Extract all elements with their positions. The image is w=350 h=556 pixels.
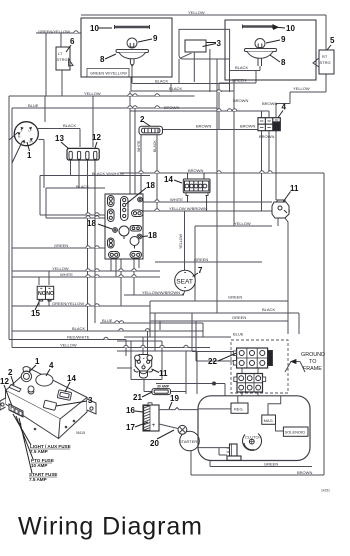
svg-text:BROWN: BROWN bbox=[164, 105, 179, 110]
svg-text:STARTER: STARTER bbox=[179, 439, 197, 444]
svg-text:BROWN: BROWN bbox=[188, 168, 203, 173]
svg-text:10: 10 bbox=[286, 24, 295, 33]
svg-text:RT: RT bbox=[322, 54, 328, 59]
svg-text:Wiring Diagram: Wiring Diagram bbox=[18, 513, 203, 541]
svg-text:GREEN/YELLOW: GREEN/YELLOW bbox=[38, 29, 70, 34]
svg-text:1: 1 bbox=[27, 151, 32, 160]
svg-text:7.5 AMP: 7.5 AMP bbox=[29, 477, 47, 482]
svg-text:GREEN: GREEN bbox=[194, 257, 208, 262]
svg-text:GREEN: GREEN bbox=[232, 315, 246, 320]
svg-text:18: 18 bbox=[146, 181, 155, 190]
svg-text:YELLOW W/BROWN: YELLOW W/BROWN bbox=[169, 206, 207, 211]
svg-text:GREEN: GREEN bbox=[54, 243, 68, 248]
svg-text:7.5 AMP: 7.5 AMP bbox=[30, 449, 48, 454]
svg-text:6: 6 bbox=[70, 37, 75, 46]
svg-text:3: 3 bbox=[217, 39, 222, 48]
svg-text:YELLOW: YELLOW bbox=[188, 10, 205, 15]
svg-text:BLACK: BLACK bbox=[72, 326, 85, 331]
svg-text:NO: NO bbox=[38, 291, 46, 297]
svg-text:REG.: REG. bbox=[234, 406, 244, 411]
svg-text:STRG: STRG bbox=[320, 60, 331, 65]
svg-text:9: 9 bbox=[153, 34, 158, 43]
svg-text:19: 19 bbox=[170, 394, 179, 403]
svg-text:3: 3 bbox=[88, 396, 93, 405]
svg-text:4: 4 bbox=[49, 361, 54, 370]
svg-text:L+: L+ bbox=[29, 129, 33, 133]
svg-text:S: S bbox=[21, 129, 23, 133]
svg-text:BROWN: BROWN bbox=[297, 470, 312, 475]
svg-text:YELLOW: YELLOW bbox=[293, 86, 310, 91]
svg-text:LT: LT bbox=[58, 51, 63, 56]
svg-text:BLACK: BLACK bbox=[153, 140, 157, 152]
svg-text:18: 18 bbox=[87, 219, 96, 228]
svg-text:30 AMP: 30 AMP bbox=[157, 385, 170, 389]
svg-text:4: 4 bbox=[282, 103, 287, 112]
svg-text:GROUND: GROUND bbox=[301, 352, 325, 358]
svg-text:BLACK: BLACK bbox=[63, 123, 76, 128]
svg-text:21: 21 bbox=[133, 393, 142, 402]
svg-text:B+: B+ bbox=[30, 140, 34, 144]
svg-text:14: 14 bbox=[164, 175, 173, 184]
svg-text:YELLOW: YELLOW bbox=[60, 343, 77, 348]
svg-text:BLUE: BLUE bbox=[28, 103, 39, 108]
svg-text:BLACK: BLACK bbox=[262, 307, 275, 312]
svg-text:A: A bbox=[23, 141, 25, 145]
svg-text:FRAME: FRAME bbox=[303, 366, 322, 372]
svg-text:BROWN: BROWN bbox=[233, 98, 248, 103]
svg-text:8: 8 bbox=[100, 55, 105, 64]
svg-text:BLACK: BLACK bbox=[76, 184, 89, 189]
svg-text:BLUE: BLUE bbox=[102, 318, 113, 323]
svg-text:WHITE: WHITE bbox=[137, 140, 141, 152]
svg-text:2: 2 bbox=[8, 368, 13, 377]
svg-text:YELLOW: YELLOW bbox=[179, 233, 183, 249]
svg-text:5: 5 bbox=[330, 36, 335, 45]
svg-text:YELLOW: YELLOW bbox=[84, 91, 101, 96]
svg-text:NO: NO bbox=[46, 291, 54, 297]
svg-text:06115: 06115 bbox=[76, 431, 85, 435]
svg-text:9: 9 bbox=[281, 35, 286, 44]
svg-text:22: 22 bbox=[208, 357, 217, 366]
svg-text:14151: 14151 bbox=[321, 489, 330, 493]
svg-text:18: 18 bbox=[148, 231, 157, 240]
svg-text:RED/WHITE: RED/WHITE bbox=[67, 335, 90, 340]
svg-text:16: 16 bbox=[126, 406, 135, 415]
svg-text:+: + bbox=[152, 422, 156, 429]
svg-text:11: 11 bbox=[159, 369, 168, 378]
svg-text:BROWN: BROWN bbox=[196, 124, 211, 129]
svg-text:8: 8 bbox=[281, 58, 286, 67]
svg-text:10 AMP: 10 AMP bbox=[31, 463, 47, 468]
svg-text:12: 12 bbox=[92, 133, 101, 142]
svg-text:1: 1 bbox=[35, 357, 40, 366]
svg-text:13: 13 bbox=[55, 134, 64, 143]
svg-text:12: 12 bbox=[0, 377, 9, 386]
svg-text:BROWN: BROWN bbox=[262, 101, 277, 106]
svg-text:7: 7 bbox=[198, 266, 203, 275]
svg-text:BROWN: BROWN bbox=[259, 134, 274, 139]
svg-text:MAG.: MAG. bbox=[264, 418, 274, 423]
svg-text:BROWN: BROWN bbox=[240, 124, 255, 129]
svg-text:BLACK: BLACK bbox=[169, 86, 182, 91]
svg-text:BLACK W/WHITE: BLACK W/WHITE bbox=[92, 171, 124, 176]
svg-text:YELLOW/W/BROWN: YELLOW/W/BROWN bbox=[142, 290, 180, 295]
svg-text:BLACK: BLACK bbox=[235, 65, 248, 70]
svg-text:WHITE: WHITE bbox=[60, 272, 73, 277]
svg-text:WHITE: WHITE bbox=[170, 197, 183, 202]
svg-text:SOLENOID: SOLENOID bbox=[285, 430, 306, 435]
svg-text:15: 15 bbox=[31, 309, 40, 318]
svg-text:YELLOW: YELLOW bbox=[234, 221, 251, 226]
svg-text:CLUTCH: CLUTCH bbox=[245, 435, 261, 440]
svg-text:BLUE: BLUE bbox=[233, 332, 244, 337]
svg-text:TO: TO bbox=[309, 359, 316, 365]
svg-text:14: 14 bbox=[67, 374, 76, 383]
svg-text:17: 17 bbox=[126, 423, 135, 432]
svg-text:BLACK: BLACK bbox=[155, 79, 168, 84]
svg-text:GREEN: GREEN bbox=[264, 462, 278, 467]
svg-text:SEAT: SEAT bbox=[176, 278, 193, 285]
svg-text:GREEN: GREEN bbox=[228, 295, 242, 300]
svg-text:20: 20 bbox=[150, 439, 159, 448]
svg-text:YELLOW: YELLOW bbox=[52, 266, 69, 271]
svg-text:GREEN/YELLOW: GREEN/YELLOW bbox=[52, 301, 84, 306]
svg-text:STRG: STRG bbox=[57, 57, 68, 62]
svg-text:GREEN W/YELLOW: GREEN W/YELLOW bbox=[90, 71, 127, 76]
svg-text:11: 11 bbox=[290, 184, 299, 193]
